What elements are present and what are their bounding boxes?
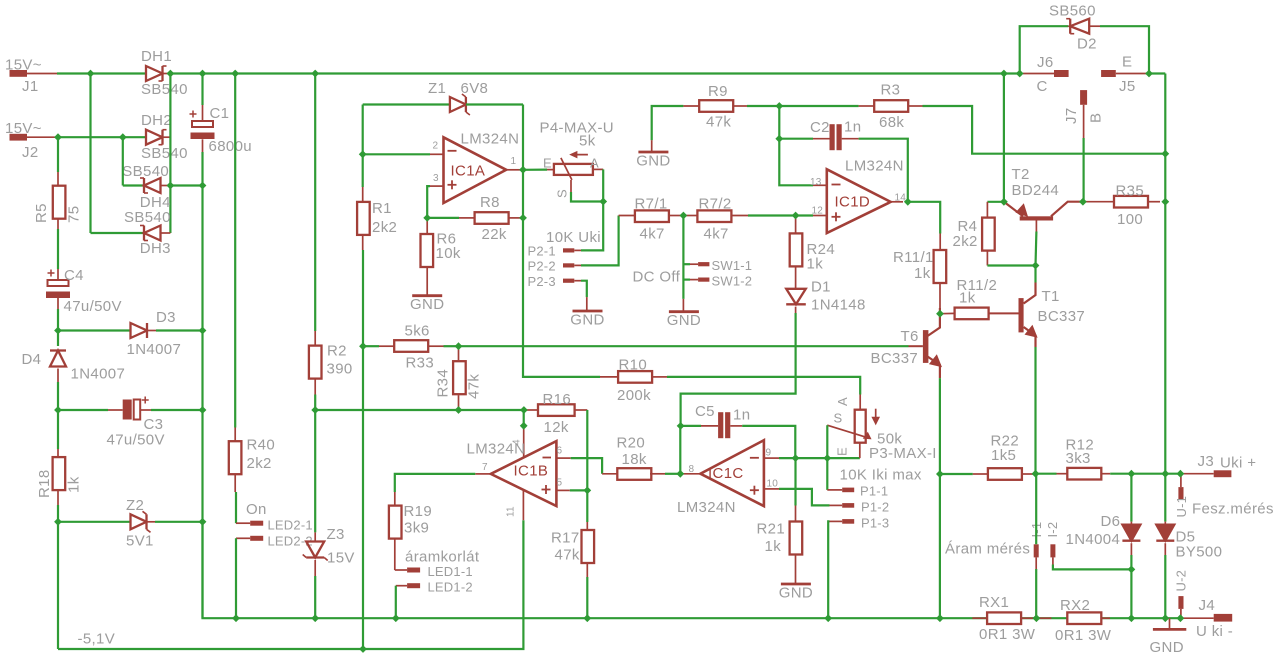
wire R4 bottom pin [986, 251, 988, 266]
svg-text:13: 13 [810, 177, 822, 188]
connector pad SW1-2 [698, 278, 709, 282]
wire R22 right pin [1022, 473, 1035, 475]
node J5 right node [1145, 70, 1153, 78]
wire R16 right pin [575, 409, 588, 411]
wire R18 top pin [57, 449, 59, 458]
wire T1 emitter down [1034, 347, 1036, 474]
svg-text:DH3: DH3 [140, 240, 171, 257]
wire J2 to DH4 vertical [122, 137, 124, 185]
node DH4 anode [167, 182, 175, 190]
wire D3 row right [156, 329, 203, 331]
wire R7 junction to SW1 [682, 216, 684, 299]
resistor R11/2 1k [955, 308, 989, 320]
wire D6 top pin [1130, 522, 1132, 525]
wire T6 emitter down [939, 378, 941, 474]
node R40 rail branch [231, 70, 239, 78]
svg-text:R7/1: R7/1 [635, 196, 668, 213]
wire U-1 pin [1180, 474, 1182, 487]
wire C1 top vertical [201, 74, 203, 106]
svg-text:2k2: 2k2 [372, 219, 397, 236]
wire D4 to C3 row [57, 382, 59, 410]
svg-text:3k9: 3k9 [404, 520, 429, 537]
wire IC1C pin9 stub [764, 457, 779, 459]
svg-text:68k: 68k [879, 114, 904, 131]
wire J2 pin [27, 136, 57, 138]
wire J5 pad pin [1116, 73, 1149, 75]
wire J1 to DH3 vertical [89, 74, 91, 234]
IC1D plus mark [832, 212, 841, 221]
svg-text:2k2: 2k2 [247, 455, 272, 472]
wire D5 to rail [1164, 555, 1166, 618]
wire D6 to I2 row [1130, 555, 1132, 569]
wire R2 bottom pin [314, 379, 316, 395]
svg-text:-5,1V: -5,1V [78, 631, 116, 648]
wire U-2 pin [1180, 609, 1182, 618]
svg-text:LED1-2: LED1-2 [428, 580, 473, 595]
connector pad LED2-1 [250, 521, 263, 526]
connector pad LED1-2 [407, 583, 420, 588]
wire R4 top branch [987, 201, 1004, 203]
node DH1 cathode [167, 70, 175, 78]
wire T6 emitter to rail [939, 474, 941, 618]
transistor T6 BC337 base bar [923, 330, 929, 363]
wire R10 left pin [600, 376, 618, 378]
svg-text:1N4007: 1N4007 [127, 341, 182, 358]
wire IC1B pin5 stub [556, 489, 569, 491]
node R2 rail branch [311, 70, 319, 78]
resistor R21 1k [790, 522, 803, 555]
svg-text:GND: GND [1150, 639, 1184, 656]
node T6 rail [936, 614, 944, 622]
wire C3 row to R18 [57, 410, 59, 449]
svg-text:C3: C3 [144, 416, 164, 433]
wire P3 E pin [859, 443, 861, 459]
resistor R11/1 1k [934, 250, 947, 283]
wire SW1-2 pin [690, 279, 698, 281]
wire R19 top pin [394, 492, 396, 506]
svg-text:P1-3: P1-3 [861, 516, 889, 531]
svg-text:100: 100 [1117, 211, 1143, 228]
connector pad P1-2 [842, 503, 854, 508]
svg-text:On: On [246, 501, 267, 518]
resistor RX1 0R1 3W [987, 612, 1021, 624]
T1 emitter arrow [1025, 326, 1036, 337]
svg-text:áramkorlát: áramkorlát [405, 549, 480, 566]
svg-text:11: 11 [506, 506, 517, 517]
wire P4 A down [602, 169, 604, 201]
wire I-1 to rail pin [1035, 557, 1037, 569]
svg-text:47k: 47k [706, 114, 731, 131]
wire P1-3 pin [830, 520, 843, 522]
svg-text:BC337: BC337 [1038, 308, 1086, 325]
zener diode Z3 15V [303, 542, 328, 561]
svg-text:P2-2: P2-2 [528, 259, 556, 274]
svg-text:U-2: U-2 [1174, 570, 1189, 592]
node D5 top [1161, 470, 1169, 478]
wire D4 bottom pin [57, 369, 59, 383]
resistor R18 1k [53, 457, 66, 490]
wire C5 right pin [730, 425, 742, 427]
resistor R6 10k [421, 234, 434, 267]
wire T2 emitter rail drop [1003, 74, 1005, 202]
wire output to R19 [395, 474, 476, 492]
svg-text:10: 10 [767, 479, 779, 490]
wire T2 base down [1034, 232, 1037, 266]
wire P2-3 to ground [581, 281, 587, 297]
svg-text:4k7: 4k7 [704, 226, 729, 243]
wire DH4 row left [123, 184, 147, 186]
wire R1 bottom pin [362, 235, 364, 250]
resistor R20 18k [617, 468, 651, 480]
resistor R34 47k [453, 361, 466, 394]
svg-text:18k: 18k [622, 451, 647, 468]
svg-text:Fesz.mérés: Fesz.mérés [1192, 501, 1274, 518]
resistor R9 47k [699, 100, 733, 112]
wire R7/2 right pin [732, 215, 748, 217]
wire bottom rail [203, 522, 1181, 618]
transistor T1 BC337 base bar [1019, 298, 1024, 332]
node R9-R3-C2 [775, 102, 783, 110]
connector pad P2-1 [563, 248, 574, 252]
wire D1 to C5 node [681, 313, 796, 426]
wire R22 left pin [973, 473, 988, 475]
node T6-R22 [936, 470, 944, 478]
wire R11/1 top pin [939, 234, 941, 251]
svg-text:IC1A: IC1A [451, 163, 486, 180]
wire C2 left pin [813, 138, 830, 140]
connector U-1 pad [1178, 487, 1183, 500]
resistor R40 2k2 [229, 441, 242, 474]
wire IC1D pin12 stub [813, 215, 827, 217]
svg-text:10K Iki max: 10K Iki max [840, 467, 922, 484]
node C5 left node [677, 422, 685, 430]
wire IC1B pin11 pin [522, 490, 524, 520]
wire IC1A pin2 row [363, 153, 430, 155]
svg-text:R8: R8 [480, 194, 500, 211]
wire LED2-2 pin [236, 537, 250, 539]
svg-text:R3: R3 [881, 82, 901, 99]
svg-text:9: 9 [766, 448, 772, 459]
svg-text:GND: GND [667, 312, 701, 329]
resistor R5 75 [53, 186, 66, 219]
node C2 left [775, 135, 783, 143]
node P4 S-A junction [599, 198, 607, 206]
wire R21 top [794, 458, 796, 505]
wire LED2-1 pin [236, 522, 250, 524]
svg-text:R16: R16 [543, 391, 572, 408]
wire R3 to J7 row [923, 106, 1084, 154]
IC1C minus mark [750, 457, 759, 459]
wire R33 row left [363, 345, 379, 347]
op-amp IC1D [827, 169, 891, 233]
wire R10 right pin [652, 376, 667, 378]
node LED1-2 rail [392, 614, 400, 622]
svg-text:D3: D3 [156, 309, 176, 326]
wire R1 top pin [362, 187, 364, 202]
node T6 collector node [936, 310, 944, 318]
ground symbol (R6) [410, 296, 444, 314]
node pin9-R21 [792, 454, 800, 462]
wire SW1 gnd pin [682, 299, 684, 312]
wire rail to R2 [314, 74, 316, 332]
wire D5 top pin [1164, 522, 1166, 525]
wire IC1C pin10 stub [764, 488, 779, 490]
svg-text:15V: 15V [327, 550, 355, 567]
wire D5 top wire [1164, 474, 1166, 522]
wire D1 bottom pin [795, 307, 797, 313]
svg-text:SW1-1: SW1-1 [712, 258, 753, 273]
wire IC1A output pin [506, 169, 520, 171]
wire DH4 row right [170, 184, 202, 186]
wire P4 S pin [570, 180, 572, 192]
svg-text:J4: J4 [1199, 597, 1216, 614]
svg-text:R40: R40 [247, 437, 276, 454]
svg-text:10k: 10k [436, 245, 461, 262]
wire Z1 row left [363, 103, 450, 105]
wire P1-1 column [826, 458, 828, 490]
wire bridge cathode vertical [169, 74, 171, 234]
wire R35 left pin [1083, 201, 1114, 203]
op-amp IC1B (mirrored) [491, 441, 557, 506]
diode DH3 body [140, 226, 161, 241]
svg-text:12: 12 [812, 206, 824, 217]
wire top rail J1 to DH1 [57, 72, 146, 74]
IC1B minus mark [543, 457, 552, 459]
svg-text:1k: 1k [66, 476, 83, 493]
svg-text:E: E [1122, 54, 1132, 71]
wire R33 left pin [379, 345, 394, 347]
node T2 emitter rail branch [1000, 70, 1008, 78]
wire RX1 right pin [1021, 617, 1037, 619]
wire D3 row to D4 [57, 331, 59, 347]
svg-text:BY500: BY500 [1176, 544, 1223, 561]
svg-text:GND: GND [570, 312, 604, 329]
wire DH1 cathode stub [163, 73, 171, 75]
wire IC1B pin4 drop [523, 410, 525, 426]
wire J2 row [57, 136, 146, 138]
resistor RX2 0R1 3W [1067, 612, 1101, 624]
wire DH3 anode stub [161, 232, 171, 234]
svg-text:SB560: SB560 [1049, 3, 1096, 20]
svg-text:1k: 1k [914, 265, 931, 282]
wire DH3 row left [91, 232, 147, 234]
wire C5 to pin9 column [742, 426, 795, 458]
wire top rail DH1 to right [170, 72, 1019, 74]
diode DH4 body [140, 178, 161, 193]
wire R16 left pin [524, 409, 538, 411]
svg-text:R10: R10 [619, 357, 648, 374]
resistor R7/1 4k7 [635, 210, 669, 222]
resistor R24 1k [790, 233, 803, 266]
wire SW1-2 branch [683, 279, 690, 281]
wire P2-3 gnd pin [586, 297, 588, 311]
wire IC1B pin4 pin [523, 426, 525, 458]
capacitor C4 47u/50V [46, 270, 70, 299]
svg-text:SW1-2: SW1-2 [712, 274, 753, 289]
svg-text:R17: R17 [551, 530, 580, 547]
svg-text:2: 2 [433, 141, 439, 152]
wire Z1 row right [466, 103, 523, 105]
capacitor C2 1n [830, 124, 842, 150]
svg-text:J6: J6 [1037, 54, 1054, 71]
wire P4 S down [571, 192, 603, 202]
wire SW1-1 pin [690, 263, 698, 265]
wire R9 left pin [683, 105, 699, 107]
node T1-R22-R12 [1032, 470, 1040, 478]
wire R7/1 left pin [619, 215, 635, 217]
wire D2 anode pin [1089, 25, 1100, 27]
wire output to R11/1 [908, 202, 940, 234]
svg-text:1N4148: 1N4148 [811, 297, 866, 314]
wire pin9 row [779, 457, 860, 459]
wire J7 junction down [1082, 154, 1084, 202]
svg-text:Z3: Z3 [327, 526, 345, 543]
wire R12 left wire [1036, 473, 1057, 475]
svg-text:P4-MAX-U: P4-MAX-U [540, 120, 614, 137]
wire D6 to rail [1130, 569, 1132, 618]
wire Z3 top pin [314, 532, 316, 541]
T2 emitter arrow [1016, 204, 1027, 216]
svg-text:15V~: 15V~ [5, 57, 42, 74]
svg-text:Áram mérés: Áram mérés [945, 541, 1030, 558]
wire IC1A pin2 stub [430, 153, 444, 155]
wire LED1-2 pin [396, 585, 407, 587]
wire IC1A pin3 wire [427, 186, 430, 218]
wire C2 node down [778, 106, 780, 139]
svg-text:1n: 1n [844, 119, 861, 136]
svg-text:BC337: BC337 [871, 350, 919, 367]
wire C2 row left [779, 138, 813, 140]
wire R11/2 right pin to T1 base [989, 312, 1019, 314]
wire D3 cathode stub [147, 330, 156, 332]
svg-text:5k: 5k [579, 133, 596, 150]
diode D1 1N4148 [786, 289, 806, 305]
svg-text:R1: R1 [372, 200, 392, 217]
node C1 top [199, 70, 207, 78]
node IC1A pin2 node [359, 150, 367, 158]
IC1A minus mark [448, 150, 457, 152]
T6 collector [928, 308, 940, 336]
wire R18 bottom pin [57, 490, 59, 505]
svg-text:C5: C5 [695, 403, 715, 420]
diode D5 BY500 [1156, 525, 1174, 541]
wire R5 top pin [57, 172, 59, 186]
svg-text:4k7: 4k7 [640, 226, 665, 243]
wire P2-2 to R7 row [581, 216, 619, 266]
node R8 left node [423, 214, 431, 222]
wire RX1 left pin [972, 617, 987, 619]
node T2 base node [1032, 262, 1040, 270]
wire rail to R40 [234, 74, 236, 428]
connector pad P1-3 [842, 519, 854, 524]
wire J6 pad pin [1023, 73, 1054, 75]
svg-text:0R1 3W: 0R1 3W [979, 626, 1036, 643]
wire R5 to C4 [57, 229, 59, 269]
wire R9 gnd corner [652, 106, 684, 140]
svg-text:D4: D4 [22, 351, 42, 368]
node C3-C1 column [199, 406, 207, 414]
resistor R16 12k [538, 404, 575, 416]
wire R3 right pin [909, 105, 923, 107]
svg-text:Z1: Z1 [428, 80, 446, 97]
wire Z2 row left [58, 521, 131, 523]
svg-text:C4: C4 [64, 267, 84, 284]
svg-text:200k: 200k [617, 387, 651, 404]
wire output to pot E [523, 169, 547, 171]
svg-text:1k: 1k [765, 538, 782, 555]
node IC1D output [904, 198, 912, 206]
node Z2 row left [54, 518, 62, 526]
node D5 rail [1161, 614, 1169, 622]
svg-text:C2: C2 [810, 119, 830, 136]
svg-text:R21: R21 [757, 521, 786, 538]
svg-text:1: 1 [511, 156, 517, 167]
wire R8 right pin [508, 217, 523, 219]
diode D6 1N4004 [1122, 525, 1140, 541]
svg-text:1k5: 1k5 [991, 447, 1016, 464]
diode D4 1N4007 [50, 351, 66, 367]
svg-text:1k: 1k [807, 256, 824, 273]
svg-text:R34: R34 [435, 369, 452, 398]
potentiometer P3-MAX-I 50k [827, 409, 879, 443]
svg-text:I-2: I-2 [1045, 522, 1060, 538]
svg-text:47k: 47k [466, 374, 483, 399]
T2 emitter line [1004, 202, 1023, 217]
wire J3 row [1110, 473, 1180, 475]
node R8 right node [519, 214, 527, 222]
svg-text:47u/50V: 47u/50V [64, 298, 122, 315]
wire DH2 cathode stub [163, 136, 171, 138]
svg-text:8: 8 [689, 464, 695, 475]
node Z2-C1 column [199, 518, 207, 526]
connector U-2 pad [1178, 596, 1183, 609]
svg-text:1N4004: 1N4004 [1066, 531, 1121, 548]
IC1B plus mark [542, 485, 551, 494]
connector I-1 pad [1034, 544, 1039, 557]
svg-text:GND: GND [410, 296, 444, 313]
svg-text:R20: R20 [617, 435, 646, 452]
node D6 top [1128, 470, 1136, 478]
svg-text:R33: R33 [406, 355, 435, 372]
svg-text:R11/1: R11/1 [893, 249, 934, 266]
node R7 junction [680, 212, 688, 220]
node U-1 branch [1177, 470, 1185, 478]
svg-text:P2-1: P2-1 [528, 244, 556, 259]
wire R35 right pin [1148, 201, 1160, 203]
wire R21 bottom pin [795, 555, 797, 585]
svg-text:SB540: SB540 [122, 163, 169, 180]
node R2-R16 row [311, 406, 319, 414]
svg-text:GND: GND [636, 153, 670, 170]
node I-1 rail [1033, 614, 1041, 622]
svg-text:U ki -: U ki - [1196, 623, 1233, 640]
svg-text:75: 75 [66, 206, 83, 223]
wire R9 to node [747, 105, 779, 107]
wire R16 row [315, 409, 524, 411]
node DH4-C1 junction [199, 182, 207, 190]
wire DH4 anode stub [161, 185, 171, 187]
IC1A plus mark [448, 180, 457, 189]
T2 collector line [1051, 202, 1083, 217]
resistor R17 47k [582, 530, 595, 563]
wire pin10 to P1-2 [779, 489, 830, 506]
wire C5 row left [681, 425, 701, 427]
svg-text:SB540: SB540 [124, 209, 171, 226]
svg-text:BD244: BD244 [1012, 182, 1060, 199]
wire R20 right pin [650, 473, 665, 475]
wire D3 row left [58, 329, 131, 331]
svg-text:22k: 22k [482, 226, 507, 243]
